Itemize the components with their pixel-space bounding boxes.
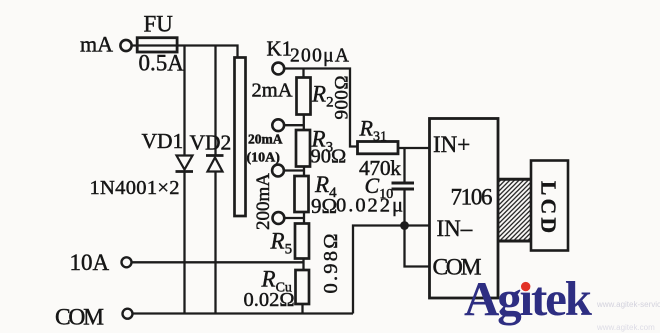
svg-text:IN+: IN+ [433,132,470,157]
svg-text:2mA: 2mA [252,80,293,102]
svg-text:1N4001×2: 1N4001×2 [90,177,180,199]
svg-text:COM: COM [55,305,104,331]
svg-text:www.agitek-service: www.agitek-service [596,300,660,309]
svg-text:10A: 10A [70,250,110,275]
svg-text:K1: K1 [267,37,293,61]
svg-text:9Ω: 9Ω [311,194,337,218]
svg-text:900Ω: 900Ω [332,76,353,120]
svg-text:0.5A: 0.5A [139,51,185,76]
svg-text:0.022μ: 0.022μ [336,195,403,217]
svg-text:LCD: LCD [537,181,561,233]
svg-text:mA: mA [80,32,113,57]
svg-text:VD1: VD1 [142,129,184,153]
svg-text:0.98Ω: 0.98Ω [320,234,342,294]
svg-text:90Ω: 90Ω [311,146,347,168]
svg-text:7106: 7106 [451,185,493,210]
svg-text:Agıtek: Agıtek [464,271,593,326]
svg-text:FU: FU [144,12,174,37]
svg-text:200μA: 200μA [290,46,349,67]
svg-text:200mA: 200mA [253,173,274,230]
svg-text:VD2: VD2 [190,131,232,155]
svg-text:20mA: 20mA [248,132,283,147]
svg-text:www.agitek.com: www.agitek.com [596,323,655,332]
svg-text:0.02Ω: 0.02Ω [244,289,295,311]
svg-text:IN–: IN– [437,216,473,241]
svg-text:(10A): (10A) [247,151,281,166]
